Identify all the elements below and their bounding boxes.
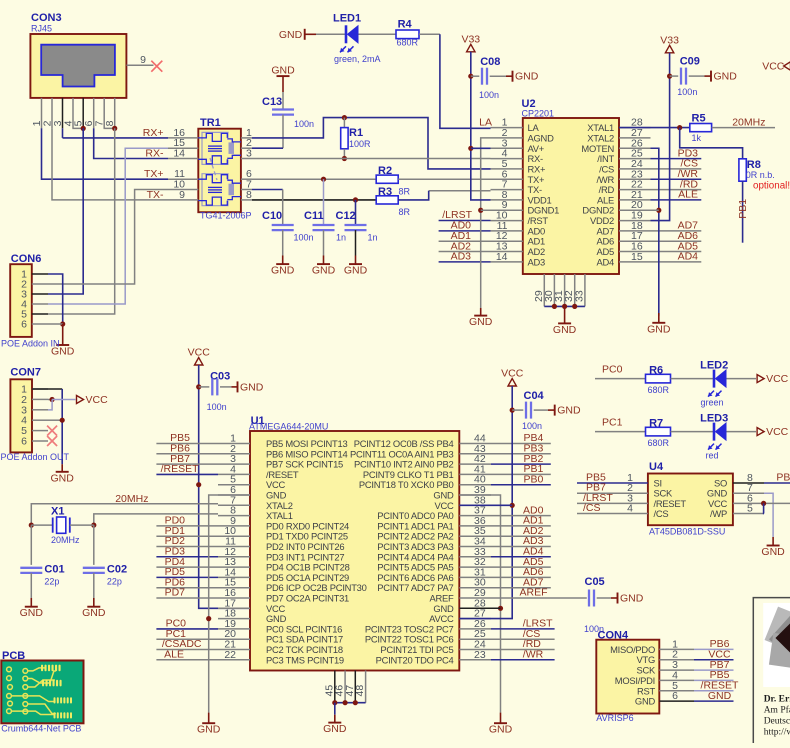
- wire net PB3 at U1 right: [491, 453, 551, 455]
- U1 pin 11 stub: [218, 546, 250, 548]
- wire CON3-3 to RX+ riser: [62, 128, 64, 138]
- U2 pin 22 stub: [619, 189, 651, 191]
- U1 pin 12 stub: [218, 556, 250, 558]
- U2 pin 19 stub: [619, 220, 651, 222]
- svg-text:8R: 8R: [399, 187, 411, 197]
- svg-text:GND: GND: [635, 696, 656, 707]
- ground at C09: [705, 75, 712, 77]
- junction R1 top: [342, 115, 347, 120]
- svg-text:GND: GND: [344, 265, 368, 277]
- U1 pin 3 stub: [218, 463, 250, 465]
- wire LED2 to VCC: [727, 378, 757, 380]
- wire net GND at CON4: [694, 700, 734, 702]
- CON6 pin 2 stub: [32, 283, 48, 285]
- LED LED2: [713, 370, 716, 388]
- wire C12 bottom lead: [355, 230, 357, 255]
- wire U2 bottom gnd bus: [544, 305, 585, 307]
- wire net RX+ to TR1 pin16: [63, 137, 169, 139]
- U1 pin 20 stub: [218, 638, 250, 640]
- wire to C04: [512, 409, 523, 411]
- wire U4 VCC net: [764, 502, 790, 504]
- U2 pin 24 stub: [619, 168, 651, 170]
- svg-text:C04: C04: [524, 390, 545, 402]
- wire CON3-2 to TR1 pin9 (TX-): [52, 128, 168, 200]
- capacitor C13: [272, 108, 294, 110]
- svg-text:LA: LA: [479, 117, 492, 129]
- resistor R1: [341, 128, 348, 149]
- svg-text:LED2: LED2: [700, 359, 728, 371]
- junction U1 VCC pin5: [196, 482, 201, 487]
- junction U1 pin38 VCC: [510, 503, 515, 508]
- wire net /LRST at U4: [577, 502, 616, 504]
- svg-text:C05: C05: [585, 576, 605, 588]
- U4 pin 8 stub: [733, 482, 764, 484]
- svg-text:CON7: CON7: [10, 367, 41, 379]
- U2 pin 21 stub: [619, 199, 651, 201]
- svg-text:680R: 680R: [648, 385, 670, 395]
- U1 pin 7 stub: [218, 504, 250, 506]
- svg-text:GND: GND: [761, 546, 785, 558]
- svg-text:PC0: PC0: [602, 363, 623, 375]
- wire net PD2 at U1: [156, 546, 218, 548]
- wire TR1 pin15 to CON6 pin4: [48, 148, 168, 304]
- wire to C08: [471, 75, 480, 77]
- svg-text:RX-: RX-: [145, 148, 164, 160]
- junction: [572, 304, 577, 309]
- wire net PD4 at U1: [156, 566, 218, 568]
- junction C11 tap: [321, 177, 326, 182]
- TR1 left pin 11 stub: [168, 178, 198, 180]
- wire net AD1 at U2 pin12: [439, 240, 491, 242]
- svg-text:14: 14: [496, 251, 508, 263]
- U1 pin 39 stub: [459, 494, 491, 496]
- svg-text:33: 33: [573, 290, 585, 302]
- svg-text:AT45DB081D-SSU: AT45DB081D-SSU: [649, 527, 725, 537]
- wire PC1 to R7: [595, 431, 646, 433]
- wire DGND1 stub join: [481, 209, 491, 211]
- wire CON3-4 join: [73, 127, 83, 129]
- CON4 pin 1 stub: [659, 648, 694, 650]
- U1 pin 2 stub: [218, 453, 250, 455]
- svg-text:TG41-2006P: TG41-2006P: [200, 211, 252, 221]
- wire TR1 pin10 to CON6 pin2: [48, 190, 168, 285]
- wire net RX+ jog TR1 pin1 to U2 pin5: [252, 118, 491, 169]
- svg-text:14: 14: [173, 148, 185, 160]
- svg-text:C09: C09: [680, 56, 700, 68]
- svg-text:C11: C11: [304, 210, 324, 222]
- svg-text:ALE: ALE: [164, 649, 184, 661]
- junction R8 branch: [677, 125, 682, 130]
- junction CON3 pins 7-8: [112, 126, 117, 131]
- U1 pin 27 stub: [459, 618, 491, 620]
- ground at C03: [232, 386, 238, 388]
- U1 pin 4 stub: [218, 473, 250, 475]
- wire C13 to TR1 pin2 net: [282, 115, 284, 149]
- U1 pin 5 stub: [218, 484, 250, 486]
- capacitor C01: [20, 567, 42, 569]
- wire net PB6 at CON4: [694, 648, 734, 650]
- U2 pin 4 stub: [491, 158, 523, 160]
- ground below CON6: [62, 324, 64, 345]
- wire LED1 to R4: [359, 33, 397, 35]
- wire net PB0 at U1 right: [491, 484, 551, 486]
- U1 pin 24 stub: [459, 649, 491, 651]
- svg-text:6: 6: [21, 319, 27, 331]
- CON3 pin 9 stub: [127, 64, 154, 66]
- CON7 pin5 no-connect X: [47, 426, 57, 436]
- capacitor C08: [481, 68, 483, 85]
- wire CON3-6 to TR1 pin14 (RX-): [94, 128, 168, 158]
- wire net /RESET at CON4: [694, 690, 734, 692]
- U2 pin 20 stub: [619, 209, 651, 211]
- U2 pin 18 stub: [619, 230, 651, 232]
- wire C08 to GND: [490, 75, 506, 77]
- TR1 left pin 9 stub: [168, 199, 198, 201]
- CON6 pin 1 stub: [32, 273, 48, 275]
- wire net /CS at U2 pin24: [651, 168, 702, 170]
- wire CON6 pin6 to gnd: [48, 323, 63, 325]
- U2 pin 26 stub: [619, 147, 651, 149]
- U2 pin 7 stub: [491, 189, 523, 191]
- svg-text:0R n.b.: 0R n.b.: [746, 170, 775, 180]
- wire U1 GND riser: [209, 495, 250, 713]
- wire U4 GND: [764, 493, 773, 537]
- wire CON3-4/5 down to CON6 pin3: [48, 128, 83, 294]
- CON4 pin 4 stub: [659, 679, 694, 681]
- svg-text:GND: GND: [271, 265, 295, 277]
- ground at LED1: [305, 33, 316, 35]
- U4 pin 2 stub: [616, 492, 648, 494]
- wire net /LRST at U1 right: [491, 628, 555, 630]
- wire X1 plate to right: [70, 524, 94, 526]
- svg-text:green, 2mA: green, 2mA: [334, 54, 381, 64]
- wire net /RD at U2 pin22: [651, 189, 702, 191]
- wire DGND2 stub join: [651, 209, 659, 211]
- svg-text:/WP: /WP: [710, 508, 727, 519]
- svg-text:22p: 22p: [107, 577, 122, 587]
- wire net AD5 at U2 pin16: [651, 251, 702, 253]
- svg-text:PC1: PC1: [602, 416, 623, 428]
- wire VCC right riser to AVCC: [459, 386, 512, 619]
- U1 pin 36 stub: [459, 525, 491, 527]
- wire GND to LED1: [316, 33, 346, 35]
- svg-text:22p: 22p: [44, 577, 59, 587]
- svg-text:15: 15: [631, 251, 643, 263]
- U1 pin 13 stub: [218, 566, 250, 568]
- wire C11 bottom lead: [323, 230, 325, 255]
- resistor R5: [690, 124, 712, 132]
- wire C12 top lead: [355, 200, 357, 224]
- TR1 transformer internals: [202, 132, 228, 164]
- wire net AD5 at U1 right: [491, 566, 551, 568]
- svg-text:1n: 1n: [336, 233, 346, 243]
- wire TR1 pin2 to C13: [252, 147, 283, 149]
- CON4 pin 3 stub: [659, 669, 694, 671]
- svg-text:GND: GND: [82, 607, 106, 619]
- wire pin38 to VCC riser: [459, 504, 512, 506]
- wire net VCC at CON4: [694, 659, 734, 661]
- svg-text:9: 9: [140, 54, 146, 66]
- junction AV+ row: [468, 146, 473, 151]
- wire AGND riser to ground: [481, 138, 491, 308]
- wire net PB6 at U1: [156, 453, 218, 455]
- junction C12 tap: [353, 197, 358, 202]
- wire R1 top lead: [343, 118, 345, 128]
- svg-text:VCC: VCC: [762, 60, 785, 72]
- svg-text:TX+: TX+: [144, 168, 164, 180]
- TR1 left pin 15 stub: [168, 147, 198, 149]
- svg-text:/CS: /CS: [654, 508, 669, 519]
- svg-text:/CS: /CS: [583, 502, 601, 514]
- wire net /WR at U2 pin23: [651, 178, 702, 180]
- svg-text:1k: 1k: [692, 133, 702, 143]
- svg-text:6: 6: [672, 690, 678, 702]
- CON6 pin 6 stub: [32, 323, 48, 325]
- junction U4 VCC-WP: [761, 501, 766, 506]
- wire V33 riser to U2 VDD2: [651, 53, 670, 221]
- svg-text:POE Addon OUT: POE Addon OUT: [1, 452, 70, 462]
- svg-text:Am Pfa: Am Pfa: [764, 705, 790, 716]
- CON3 pin 8 stub: [114, 98, 116, 128]
- TR1 right pin 2 stub: [241, 147, 252, 149]
- U1 pin 37 stub: [459, 515, 491, 517]
- U2 pin 15 stub: [619, 261, 651, 263]
- U1 pin 31 stub: [459, 576, 491, 578]
- wire to ground: [334, 703, 336, 715]
- IC U1 body: [250, 431, 459, 671]
- svg-text:GND: GND: [647, 323, 671, 335]
- wire X1 right to U1 XTAL1: [94, 514, 218, 525]
- ground below C02: [93, 598, 95, 607]
- CON7 pin 4 stub: [32, 419, 48, 421]
- connector CON7 body: [10, 379, 32, 452]
- U2 pin 25 stub: [619, 158, 651, 160]
- wire net PC1 at U1: [156, 638, 218, 640]
- wire C11 top lead: [323, 179, 325, 224]
- CON3 pin 2 stub: [51, 98, 53, 128]
- svg-text:U4: U4: [649, 461, 664, 473]
- CON3 pin 3 stub: [62, 98, 64, 128]
- wire X1 left to U1 XTAL2: [31, 504, 218, 525]
- junction: [353, 700, 358, 705]
- junction: [343, 700, 348, 705]
- svg-text:GND: GND: [708, 690, 732, 702]
- U2 pin 14 stub: [491, 261, 523, 263]
- supply VCC at LED2: [757, 375, 764, 383]
- transformer TR1 body: [198, 129, 241, 213]
- svg-text:GND: GND: [557, 405, 581, 417]
- svg-text:GND: GND: [515, 71, 539, 83]
- IC U2 body: [523, 118, 619, 274]
- svg-text:1n: 1n: [368, 233, 378, 243]
- wire C03 to GND: [220, 386, 232, 388]
- U1 pin 35 stub: [459, 535, 491, 537]
- resistor R8: [739, 159, 746, 181]
- wire TR1 pin6 to R2: [252, 178, 376, 180]
- CON4 pin 6 stub: [659, 700, 694, 702]
- U1 pin 40 stub: [459, 484, 491, 486]
- junction C04 tap: [510, 408, 515, 413]
- wire net /RESET at U1: [156, 473, 218, 475]
- CON4 pin 2 stub: [659, 659, 694, 661]
- svg-text:optional!: optional!: [753, 181, 790, 192]
- wire AREF net to C05: [491, 597, 587, 599]
- U1 pin 29 stub: [459, 597, 491, 599]
- U1 pin 10 stub: [218, 535, 250, 537]
- capacitor C12: [345, 224, 367, 226]
- wire net RX- TR1 pin3 to U2 pin4: [252, 158, 491, 160]
- svg-text:6: 6: [21, 436, 27, 448]
- wire net AD4 at U1 right: [491, 556, 551, 558]
- PCB board image: [1, 661, 83, 724]
- U1 pin28 stub: [459, 607, 500, 609]
- CON3 RJ45 jack drawing: [41, 45, 115, 87]
- resistor R3: [376, 196, 398, 204]
- CON3 pin 9 no-connect X: [151, 61, 162, 72]
- svg-text:VTG: VTG: [636, 654, 655, 665]
- wire net PB2 at U1 right: [491, 463, 551, 465]
- connector CON4 body: [596, 640, 659, 714]
- CON3 pin 5 stub: [82, 98, 84, 128]
- wire C10 bottom lead: [282, 230, 284, 255]
- svg-text:LED3: LED3: [700, 412, 728, 424]
- wire net AD3 at U2 pin14: [439, 261, 491, 263]
- IC U4 body: [648, 474, 733, 526]
- svg-text:AD3: AD3: [528, 256, 546, 267]
- U2 pin 23 stub: [619, 178, 651, 180]
- svg-text:GND: GND: [279, 29, 303, 41]
- svg-text:100n: 100n: [522, 421, 542, 431]
- LED LED3: [713, 423, 716, 441]
- capacitor C09: [680, 68, 682, 85]
- wire to X1 plate: [31, 524, 52, 526]
- svg-text:GND: GND: [197, 724, 221, 736]
- TR1 left pin 10 stub: [168, 189, 198, 191]
- svg-text:PB6: PB6: [776, 472, 790, 484]
- svg-text:C10: C10: [262, 210, 282, 222]
- junction CON3 pins 4-5: [81, 126, 86, 131]
- wire CON3-7 join: [104, 127, 115, 129]
- wire R2 to U2 pin6: [398, 178, 490, 180]
- U2 pin 8 stub: [491, 199, 523, 201]
- svg-text:GND: GND: [620, 593, 644, 605]
- svg-text:RX+: RX+: [143, 127, 164, 139]
- svg-text:GND: GND: [469, 316, 493, 328]
- svg-text:GND: GND: [51, 472, 75, 484]
- ground at C04: [548, 409, 555, 411]
- wire net AD0 at U2 pin11: [439, 230, 491, 232]
- capacitor C11: [313, 224, 335, 226]
- wire to C02: [93, 525, 95, 565]
- ground below C12: [355, 256, 357, 265]
- wire net AD6 at U1 right: [491, 576, 551, 578]
- wire net AD3 at U1 right: [491, 546, 551, 548]
- wire net LA down to U2 pin1: [440, 34, 491, 128]
- capacitor C10: [272, 224, 294, 226]
- LED LED1: [345, 25, 348, 43]
- wire CON3-7/8 down to CON6 pin5: [48, 128, 115, 314]
- wire to C03: [199, 386, 210, 388]
- svg-text:4: 4: [627, 503, 633, 515]
- U1 pin 34 stub: [459, 546, 491, 548]
- wire C09 to GND: [689, 75, 705, 77]
- capacitor C02: [83, 567, 105, 569]
- capacitor C03: [211, 378, 213, 395]
- svg-text:100n: 100n: [294, 233, 314, 243]
- wire TR1 pin8 to R3: [252, 199, 376, 201]
- wire CON3-1 to TR1 pin11 (TX+): [42, 128, 169, 179]
- svg-text:POE Addon IN: POE Addon IN: [1, 338, 60, 348]
- wire net AD4 at U2 pin15: [651, 261, 702, 263]
- wire C02 to gnd: [93, 573, 95, 598]
- wire net /LRST at U2 pin10: [439, 220, 491, 222]
- junction: [332, 700, 337, 705]
- U1 pin 8 stub: [218, 515, 250, 517]
- wire net PD3 at U2 pin25: [651, 158, 702, 160]
- U2 pin 5 stub: [491, 168, 523, 170]
- wire CON7 pin2: [48, 399, 52, 401]
- wire R5 to 20MHz: [712, 127, 775, 129]
- wire net PB7 at U4: [577, 492, 616, 494]
- U4 pin 4 stub: [616, 513, 648, 515]
- svg-text:GND: GND: [240, 381, 264, 393]
- wire net PD3 at U1: [156, 556, 218, 558]
- TR1 right pin 1 stub: [241, 137, 252, 139]
- U2 pin 16 stub: [619, 251, 651, 253]
- U1 pin 19 stub: [218, 628, 250, 630]
- CON7 pin 1 stub: [32, 388, 48, 390]
- U2 pin 6 stub: [491, 178, 523, 180]
- wire R1 bottom lead: [343, 149, 345, 159]
- U1 bottom pins 45-48: [334, 671, 336, 703]
- connector CON6 body: [10, 264, 32, 337]
- U2 pin 13 stub: [491, 251, 523, 253]
- svg-text:100n: 100n: [479, 90, 499, 100]
- CON7 pin6 no-connect X: [47, 436, 57, 446]
- svg-text:AVRISP6: AVRISP6: [596, 713, 633, 723]
- resistor R6: [646, 374, 671, 383]
- svg-text:CON6: CON6: [11, 253, 42, 265]
- ground below CON7: [61, 464, 63, 472]
- U2 pin 1 stub: [491, 127, 523, 129]
- wire R4 to LA riser: [419, 33, 440, 35]
- wire net AD7 at U2 pin18: [651, 230, 702, 232]
- wire to C01: [30, 525, 32, 565]
- U4 pin 6 stub: [733, 502, 764, 504]
- wire net AD2 at U1 right: [491, 535, 551, 537]
- ground at C05: [611, 597, 618, 599]
- wire U1 GND right riser: [459, 495, 500, 713]
- U1 pin 23 stub: [459, 659, 491, 661]
- svg-text:C13: C13: [262, 96, 282, 108]
- TR1 right pin 3 stub: [241, 158, 252, 160]
- U2 pin 3 stub: [491, 147, 523, 149]
- svg-text:AD4: AD4: [597, 256, 615, 267]
- title block frame: [753, 598, 790, 743]
- wire C05 to GND: [597, 597, 611, 599]
- wire AV+ net to U2 pin3: [471, 147, 491, 149]
- wire VCC riser to U1: [199, 365, 250, 608]
- U1 pin 28 stub: [459, 607, 491, 609]
- svg-text:GND: GND: [312, 265, 336, 277]
- ground below C10: [282, 256, 284, 265]
- svg-text:48: 48: [354, 685, 366, 697]
- svg-text:GND: GND: [489, 724, 513, 736]
- junction: [552, 304, 557, 309]
- svg-text:23: 23: [474, 649, 486, 661]
- capacitor C04: [525, 402, 527, 419]
- wire net /CS at U4: [577, 513, 616, 515]
